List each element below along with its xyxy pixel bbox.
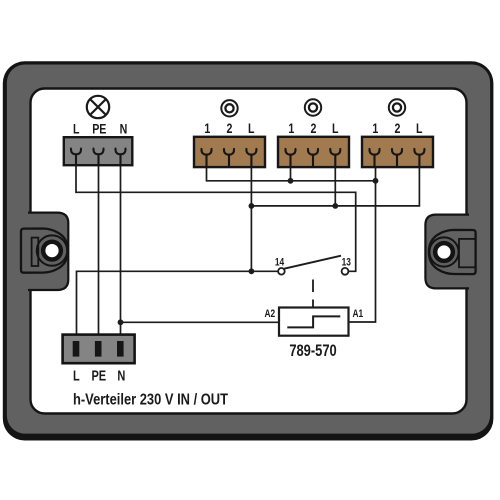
junction dot 1-3/181 [373, 178, 379, 184]
svg-text:L: L [248, 120, 255, 136]
switch contact 14 [278, 268, 285, 275]
lamp symbol [87, 96, 109, 118]
dashed actuator line [312, 277, 314, 308]
right tab bulge [425, 215, 469, 289]
wire N top-to-bottom [120, 165, 122, 335]
svg-text:14: 14 [275, 256, 285, 268]
enclosure outer body [3, 61, 494, 440]
svg-text:2: 2 [395, 120, 401, 136]
svg-text:13: 13 [342, 256, 352, 268]
terminal block brown 1 [194, 137, 265, 167]
junction dot L1/271 [249, 268, 255, 274]
wire gray L to switch 13 [76, 165, 356, 271]
svg-text:L: L [332, 120, 339, 136]
svg-text:1: 1 [288, 120, 294, 136]
terminal block gray (top) [64, 137, 133, 165]
pin N [117, 341, 124, 357]
pin L [73, 341, 80, 357]
left tab bulge [28, 213, 68, 290]
wire 1 of block3 down to relay A1 [349, 167, 376, 322]
wire 1 of block2 down [290, 167, 292, 181]
left mounting tab [21, 229, 68, 273]
svg-text:PE: PE [92, 121, 106, 137]
clamp contacts brown block 3 [369, 149, 424, 166]
svg-text:N: N [120, 121, 128, 137]
right mounting tab [429, 230, 476, 274]
svg-text:h-Verteiler 230 V IN / OUT: h-Verteiler 230 V IN / OUT [73, 392, 228, 409]
wire 1-bus y181 [207, 167, 376, 181]
svg-text:1: 1 [204, 120, 210, 136]
wire PE top-to-bottom [98, 165, 100, 335]
svg-text:L: L [416, 120, 423, 136]
svg-text:A1: A1 [353, 308, 364, 320]
svg-text:789-570: 789-570 [289, 341, 336, 360]
svg-text:2: 2 [311, 120, 317, 136]
enclosure inner white panel [31, 89, 467, 414]
wire L-bus y206 [251, 167, 419, 206]
clamp contacts brown block 2 [285, 149, 340, 166]
wire L of block1 down [250, 167, 252, 271]
wire L of block2 down [334, 167, 336, 206]
screw symbol 2 [305, 99, 321, 115]
svg-text:PE: PE [91, 367, 106, 384]
junction dot L1/206 [249, 203, 255, 209]
svg-text:1: 1 [372, 120, 378, 136]
terminal block brown 3 [362, 137, 433, 167]
screw symbol 3 [389, 99, 405, 115]
wire N to relay A2 [121, 321, 280, 323]
svg-text:N: N [117, 367, 125, 384]
terminal block black (bottom) [63, 335, 135, 364]
clamp contacts gray block [71, 149, 126, 165]
relay step symbol [287, 316, 340, 327]
switch blade [284, 256, 341, 269]
terminal block brown 2 [278, 137, 349, 167]
switch contact 13 [342, 268, 349, 275]
pin PE [95, 341, 102, 357]
junction dot L2/206 [332, 203, 338, 209]
svg-text:L: L [73, 367, 80, 384]
wire black L to switch 14 [77, 271, 278, 335]
junction dot N/A2 [118, 319, 124, 325]
screw symbol 1 [221, 100, 237, 116]
svg-text:2: 2 [227, 120, 233, 136]
svg-text:A2: A2 [265, 308, 276, 320]
relay coil box 789-570 [279, 308, 349, 336]
svg-text:L: L [73, 121, 80, 137]
junction dot 1-2/181 [288, 178, 294, 184]
clamp contacts brown block 1 [201, 149, 256, 166]
